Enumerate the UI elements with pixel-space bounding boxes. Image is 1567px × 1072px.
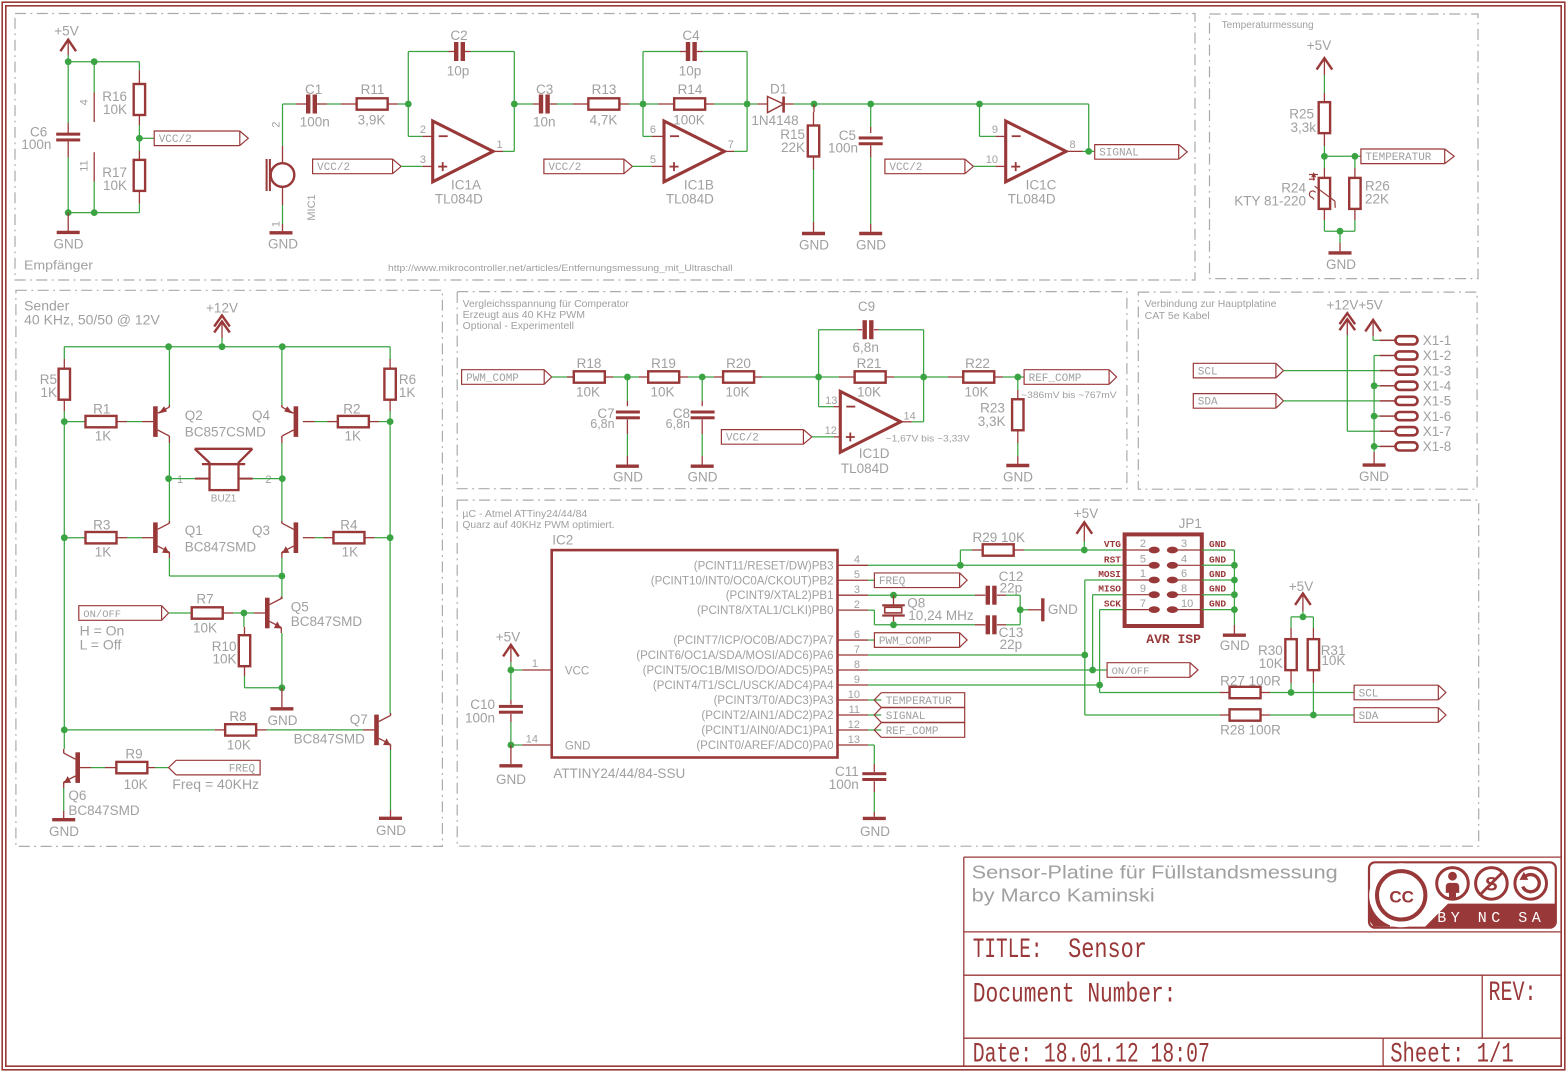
wire IC1A output to feedback node <box>503 150 514 152</box>
junction <box>920 374 927 381</box>
svg-text:R2: R2 <box>343 402 360 417</box>
svg-text:µC - Atmel ATTiny24/44/84: µC - Atmel ATTiny24/44/84 <box>462 509 587 520</box>
wire R11 to node A / junction <box>398 103 408 105</box>
svg-text:R18: R18 <box>577 356 602 371</box>
op-amp IC1B <box>652 135 664 137</box>
wire Q6 emitter to GND <box>63 782 65 788</box>
wire right rail to Q7 collector <box>389 538 391 713</box>
wire R19 to node F <box>688 376 702 378</box>
wire feedback left vertical IC1B <box>642 52 644 105</box>
wire node to GND <box>1339 231 1341 243</box>
wire C6 to GND rail <box>67 157 69 212</box>
svg-text:GND: GND <box>1209 569 1226 580</box>
resistor R28 <box>1220 714 1230 716</box>
connector pad X1-6 <box>1380 415 1396 417</box>
svg-text:12: 12 <box>848 719 860 731</box>
svg-text:~386mV bis ~767mV: ~386mV bis ~767mV <box>1021 390 1117 401</box>
svg-text:Quarz auf 40KHz PWM optimiert.: Quarz auf 40KHz PWM optimiert. <box>462 520 614 531</box>
junction <box>1371 443 1378 450</box>
wire R7 to Q5 base node <box>233 612 244 614</box>
junction <box>65 58 72 65</box>
svg-text:SIGNAL: SIGNAL <box>1099 148 1139 160</box>
wire D1 to node D <box>794 103 814 105</box>
junction <box>61 727 68 734</box>
svg-text:SIGNAL: SIGNAL <box>886 711 926 723</box>
wire VCC/2 to IC1B pin5 <box>632 165 651 167</box>
resistor R25 <box>1323 93 1325 103</box>
svg-text:2: 2 <box>1140 538 1146 550</box>
svg-text:C9: C9 <box>858 299 875 314</box>
svg-text:~1,67V bis ~3,33V: ~1,67V bis ~3,33V <box>886 433 971 444</box>
svg-text:7: 7 <box>854 644 860 656</box>
svg-text:10K: 10K <box>193 620 217 635</box>
wire Q1 emitter down <box>168 552 170 558</box>
wire R27 to SCL node <box>1270 692 1291 694</box>
svg-text:ON/OFF: ON/OFF <box>83 609 121 621</box>
svg-text:TL084D: TL084D <box>1008 192 1056 207</box>
svg-text:8: 8 <box>854 659 860 671</box>
resistor R15 <box>808 126 819 157</box>
junction <box>976 101 983 108</box>
label SCL (uC) <box>1354 685 1438 700</box>
svg-text:100K: 100K <box>673 112 705 127</box>
IC2 pin 10 (PCINT3/T0/ADC3)PA3 <box>838 699 869 701</box>
svg-text:Q1: Q1 <box>185 523 203 538</box>
svg-text:GND: GND <box>1209 599 1226 610</box>
IC2 pin 2 (PCINT8/XTAL1/CLKI)PB0 <box>838 609 869 611</box>
resistor R17 <box>138 151 140 160</box>
svg-text:GND: GND <box>1326 257 1356 272</box>
svg-text:Verbindung zur Hauptplatine: Verbindung zur Hauptplatine <box>1145 299 1277 310</box>
svg-text:ATTINY24/44/84-SSU: ATTINY24/44/84-SSU <box>553 766 685 781</box>
svg-text:BUZ1: BUZ1 <box>211 493 237 504</box>
JP1 row MISO pins 9/8 <box>1125 594 1150 596</box>
junction <box>511 101 518 108</box>
junction <box>811 101 818 108</box>
svg-text:1: 1 <box>271 221 283 227</box>
svg-text:FREQ: FREQ <box>879 576 906 588</box>
svg-text:(PCINT1/AIN0/ADC1)PA1: (PCINT1/AIN0/ADC1)PA1 <box>701 725 833 737</box>
svg-text:3,3K: 3,3K <box>978 414 1006 429</box>
svg-text:+5V: +5V <box>1307 38 1331 53</box>
svg-text:TL084D: TL084D <box>666 192 714 207</box>
label SIGNAL <box>1095 145 1179 160</box>
svg-text:SCK: SCK <box>1104 599 1121 610</box>
wire bottom rail (Empfaenger divider) <box>138 204 140 213</box>
svg-text:FREQ: FREQ <box>229 763 256 775</box>
junction <box>1096 682 1103 689</box>
wire SCL node to label <box>1291 692 1354 694</box>
connector pad X1-3 <box>1380 370 1396 372</box>
transistor Q6 <box>75 752 80 783</box>
label VCC/2 (IC1C pin10) <box>885 159 965 174</box>
svg-text:Sender: Sender <box>24 298 69 314</box>
junction <box>165 475 172 482</box>
capacitor C7 <box>626 377 628 401</box>
wire node D to R15 <box>813 104 815 112</box>
label VCC/2 (divider) <box>154 131 240 146</box>
wire C11 to GND <box>873 792 875 812</box>
ground GND (crystal, rotated) <box>1028 609 1041 611</box>
svg-text:7: 7 <box>1140 598 1146 610</box>
svg-text:GND: GND <box>1220 638 1250 653</box>
svg-text:X1-5: X1-5 <box>1423 394 1452 409</box>
svg-text:Sensor: Sensor <box>1068 935 1147 966</box>
svg-text:40 KHz, 50/50 @ 12V: 40 KHz, 50/50 @ 12V <box>24 312 160 327</box>
resistor R1 <box>64 421 85 423</box>
svg-text:IC1D: IC1D <box>859 446 890 461</box>
ground GND (under Q5) <box>281 688 283 707</box>
svg-text:100n: 100n <box>828 141 858 156</box>
wire right rail R6-R4 <box>389 422 391 538</box>
wire Q4 collector to node 2 <box>281 436 283 443</box>
wire R20 to node G <box>762 376 819 378</box>
wire R18 to node E <box>613 376 627 378</box>
junction <box>1085 148 1092 155</box>
wire ON/OFF to R7 <box>169 612 192 614</box>
svg-text:10K: 10K <box>725 385 749 400</box>
IC2 pin 8 (PCINT5/OC1B/MISO/DO/ADC5)PA5 <box>838 669 869 671</box>
junction <box>699 374 706 381</box>
wire C4 to output node IC1B <box>703 51 748 53</box>
logo icon NC <box>1476 868 1508 900</box>
junction <box>1231 577 1238 584</box>
svg-text:10K: 10K <box>1321 653 1345 668</box>
wire SCL branch down to R27 <box>1099 685 1101 693</box>
wire to rotated GND <box>1020 609 1028 611</box>
svg-text:6: 6 <box>854 629 860 641</box>
wire node G to IC1D pin13 <box>818 377 820 407</box>
svg-text:JP1: JP1 <box>1179 516 1202 531</box>
capacitor C2 <box>408 51 448 53</box>
svg-text:10p: 10p <box>679 64 702 79</box>
svg-text:8: 8 <box>1181 583 1187 595</box>
svg-text:1K: 1K <box>342 545 359 560</box>
junction <box>279 475 286 482</box>
ground GND (JP1) <box>1233 625 1235 634</box>
svg-text:GND: GND <box>496 772 526 787</box>
IC2 pin 4 (PCINT11/RESET/DW)PB3 <box>838 564 869 566</box>
ground GND (Temperatur) <box>1339 243 1341 251</box>
svg-text:3,3k: 3,3k <box>1290 120 1316 135</box>
svg-text:MISO: MISO <box>1098 584 1121 595</box>
wire Q7 emitter to GND <box>390 745 392 751</box>
ground GND (under C6) <box>67 213 69 231</box>
resistor R18 <box>567 376 574 378</box>
ground GND (Verbindung) <box>1373 452 1375 464</box>
label ON/OFF (IC2) <box>1093 669 1108 671</box>
capacitor C4 <box>643 51 680 53</box>
wire left rail to R8 node <box>63 538 65 730</box>
wire MIC1 to signal row <box>282 104 284 146</box>
capacitor C6 <box>67 62 69 123</box>
svg-text:+5V: +5V <box>1074 506 1098 521</box>
wire +5V rail <box>68 61 139 63</box>
svg-text:C4: C4 <box>682 28 700 43</box>
wire pin2 elbow to crystal bottom <box>868 609 874 611</box>
svg-text:1: 1 <box>177 474 183 486</box>
svg-text:REV:: REV: <box>1489 978 1537 1009</box>
svg-text:10K: 10K <box>103 102 127 117</box>
capacitor C12 <box>975 594 985 596</box>
label FREQ (Sender) <box>176 760 260 775</box>
wire node to R26 <box>1354 156 1356 168</box>
junction <box>1310 712 1317 719</box>
svg-text:BC847SMD: BC847SMD <box>185 540 257 555</box>
junction <box>279 573 286 580</box>
svg-text:1: 1 <box>497 139 503 151</box>
svg-text:VCC/2: VCC/2 <box>889 162 922 174</box>
op-amp IC1D <box>834 406 841 408</box>
svg-text:Document Number:: Document Number: <box>973 979 1177 1010</box>
svg-text:10K: 10K <box>212 652 236 667</box>
svg-text:KTY 81-220: KTY 81-220 <box>1234 194 1306 209</box>
wire bottom node (Temperatur) <box>1324 230 1355 232</box>
svg-text:GND: GND <box>565 740 591 752</box>
svg-text:Vergleichsspannung für Compera: Vergleichsspannung für Comperator <box>463 299 630 310</box>
svg-text:10: 10 <box>1181 598 1193 610</box>
svg-text:Q5: Q5 <box>291 600 309 615</box>
wire C10 to GND node <box>510 722 512 745</box>
junction <box>1371 413 1378 420</box>
wire node to C3 <box>514 103 533 105</box>
junction <box>387 534 394 541</box>
transistor Q2 <box>153 406 158 437</box>
connector pad X1-5 <box>1380 400 1396 402</box>
svg-text:+5V: +5V <box>1289 579 1313 594</box>
svg-text:10K: 10K <box>857 385 881 400</box>
svg-text:100n: 100n <box>465 711 495 726</box>
ground GND (under MIC1) <box>282 224 284 231</box>
wire pin2 IC1A <box>408 135 422 137</box>
wire Q4 base to R2 <box>315 421 328 423</box>
svg-text:(PCINT7/ICP/OC0B/ADC7)PA7: (PCINT7/ICP/OC0B/ADC7)PA7 <box>673 635 833 647</box>
svg-text:6,8n: 6,8n <box>590 417 614 431</box>
svg-text:22p: 22p <box>1000 637 1023 652</box>
wire R26 to bottom node <box>1354 220 1356 231</box>
svg-text:TEMPERATUR: TEMPERATUR <box>886 696 952 708</box>
wire R1 to Q2 base <box>127 421 142 423</box>
svg-text:2: 2 <box>271 121 283 127</box>
wire crystal node to C12 <box>894 594 976 596</box>
wire left rail node R3 <box>63 422 65 538</box>
resistor R10 <box>243 613 245 627</box>
svg-text:+12V+5V: +12V+5V <box>1327 298 1383 313</box>
wire VCC/2 to IC1D pin12 <box>812 436 834 438</box>
wire RESET pin4 to JP1 RST <box>868 564 1124 566</box>
junction <box>1288 689 1295 696</box>
svg-text:GND: GND <box>268 237 298 252</box>
svg-text:4: 4 <box>79 99 91 105</box>
label SDA (uC) <box>1354 708 1438 723</box>
svg-text:14: 14 <box>904 411 916 423</box>
svg-text:3: 3 <box>854 584 860 596</box>
svg-text:IC1A: IC1A <box>451 178 481 193</box>
svg-text:TITLE:: TITLE: <box>973 935 1043 966</box>
wire C7 to GND <box>626 434 628 456</box>
svg-text:(PCINT10/INT0/OC0A/CKOUT)PB2: (PCINT10/INT0/OC0A/CKOUT)PB2 <box>651 575 834 587</box>
svg-text:VTG: VTG <box>1104 539 1121 550</box>
IC2 pin 14 GND <box>511 744 522 746</box>
svg-text:R21: R21 <box>857 356 882 371</box>
svg-text:GND: GND <box>860 824 890 839</box>
resistor R16 <box>138 70 140 84</box>
svg-text:D1: D1 <box>770 82 787 97</box>
wire TEMPERATUR node row <box>1324 155 1361 157</box>
svg-text:R11: R11 <box>361 82 385 97</box>
svg-text:(PCINT8/XTAL1/CLKI)PB0: (PCINT8/XTAL1/CLKI)PB0 <box>697 605 834 617</box>
svg-text:(PCINT3/T0/ADC3)PA3: (PCINT3/T0/ADC3)PA3 <box>714 695 834 707</box>
ground GND (under C10) <box>510 745 512 764</box>
wire Q2 collector to node 1 <box>168 443 170 479</box>
section box Verbindung <box>1138 292 1477 489</box>
IC2 pin 9 (PCINT4/T1/SCL/USCK/ADC4)PA4 <box>838 684 869 686</box>
svg-text:SCL: SCL <box>1198 366 1218 378</box>
wire R9 to FREQ label <box>155 767 169 769</box>
svg-text:R22: R22 <box>965 356 990 371</box>
svg-text:Q3: Q3 <box>252 523 270 538</box>
wire crystal bottom to C13 <box>894 624 976 626</box>
wire IC1D output to node H <box>912 421 924 423</box>
svg-text:X1-2: X1-2 <box>1423 348 1452 363</box>
resistor R13 <box>573 103 588 105</box>
logo icon SA <box>1515 868 1547 900</box>
section box Sender <box>16 290 443 846</box>
svg-text:6,8n: 6,8n <box>666 417 690 431</box>
supply +5V (Verbindung) <box>1365 320 1381 332</box>
svg-text:BC847SMD: BC847SMD <box>294 732 366 747</box>
svg-text:SCL: SCL <box>1359 688 1379 700</box>
svg-text:(PCINT4/T1/SCL/USCK/ADC4)PA4: (PCINT4/T1/SCL/USCK/ADC4)PA4 <box>653 680 834 692</box>
svg-text:VCC: VCC <box>565 665 589 677</box>
wire pin9 PA4 to SCK/SCL node <box>868 684 1099 686</box>
svg-text:(PCINT5/OC1B/MISO/DO/ADC5)PA5: (PCINT5/OC1B/MISO/DO/ADC5)PA5 <box>643 665 834 677</box>
junction <box>91 209 98 216</box>
svg-text:Freq = 40KHz: Freq = 40KHz <box>172 776 259 792</box>
wire R4 to right rail node <box>375 537 391 539</box>
section box Empfaenger <box>15 14 1195 281</box>
svg-text:X1-3: X1-3 <box>1423 363 1452 378</box>
wire C1 to R11 <box>327 103 341 105</box>
svg-text:VCC/2: VCC/2 <box>548 162 581 174</box>
wire R8 to Q7 base <box>267 729 364 731</box>
svg-text:2: 2 <box>265 474 271 486</box>
svg-text:5: 5 <box>854 569 860 581</box>
svg-text:6: 6 <box>1181 568 1187 580</box>
label REF_COMP <box>1018 376 1024 378</box>
wire C3 to R13 <box>557 103 573 105</box>
svg-text:MOSI: MOSI <box>1098 569 1121 580</box>
junction <box>1231 606 1238 613</box>
wire VCC/2 to IC1C pin10 <box>973 165 995 167</box>
svg-text:BY NC SA: BY NC SA <box>1437 910 1545 927</box>
svg-text:C2: C2 <box>450 28 467 43</box>
wire SCL to X1-3 <box>1284 370 1380 372</box>
svg-text:TEMPERATUR: TEMPERATUR <box>1365 152 1431 164</box>
svg-text:X1-4: X1-4 <box>1423 379 1452 394</box>
svg-text:CAT 5e Kabel: CAT 5e Kabel <box>1145 311 1210 322</box>
wire R5 to R1 node <box>63 411 65 422</box>
wire pin3 to crystal node <box>868 594 893 596</box>
wire R28 to SDA node <box>1270 714 1313 716</box>
IC2 pin 6 (PCINT7/ICP/OC0B/ADC7)PA7 <box>838 639 869 641</box>
svg-text:ON/OFF: ON/OFF <box>1112 666 1150 678</box>
svg-text:R1: R1 <box>93 402 110 417</box>
svg-text:SDA: SDA <box>1359 711 1379 723</box>
svg-text:9: 9 <box>854 674 860 686</box>
wire MOSI vertical <box>1084 580 1086 655</box>
svg-text:X1-7: X1-7 <box>1423 424 1452 439</box>
ground GND (under C7) <box>626 456 628 465</box>
svg-text:14: 14 <box>526 733 538 745</box>
svg-text:GND: GND <box>1003 470 1033 485</box>
svg-text:Q2: Q2 <box>185 408 203 423</box>
wire +12V stem <box>221 338 223 347</box>
capacitor C10 <box>510 670 512 700</box>
svg-text:10p: 10p <box>447 64 470 79</box>
svg-text:R4: R4 <box>340 518 358 533</box>
svg-text:+5V: +5V <box>496 630 520 645</box>
svg-text:GND: GND <box>1209 539 1226 550</box>
svg-text:10K: 10K <box>227 738 251 753</box>
svg-text:100n: 100n <box>300 115 330 130</box>
junction <box>1017 606 1024 613</box>
junction <box>1231 562 1238 569</box>
wire MISO vertical <box>1092 595 1094 670</box>
svg-text:3: 3 <box>1181 538 1187 550</box>
resistor R31 <box>1312 628 1314 639</box>
ground GND (under Q6) <box>63 811 65 818</box>
wire R30 to SCL node <box>1290 683 1292 693</box>
svg-text:2: 2 <box>420 124 426 136</box>
wire C2 to output node <box>471 51 515 53</box>
svg-text:AVR ISP: AVR ISP <box>1146 632 1201 647</box>
label REF_COMP (IC2 pin12) <box>868 729 881 731</box>
svg-text:BC857CSMD: BC857CSMD <box>185 424 266 439</box>
svg-text:L = Off: L = Off <box>80 637 122 653</box>
wire R23 to GND <box>1017 443 1019 456</box>
wire Q2 emitter to rail <box>168 436 170 443</box>
connector pad X1-8 <box>1380 445 1396 447</box>
wire R29 to +5V node (VTG row) <box>1024 549 1084 551</box>
svg-text:1: 1 <box>532 658 538 670</box>
svg-text:R13: R13 <box>592 82 617 97</box>
svg-text:MIC1: MIC1 <box>306 194 318 220</box>
svg-text:5: 5 <box>1140 554 1146 566</box>
junction <box>1300 614 1307 621</box>
JP1 row MOSI pins 1/6 <box>1125 579 1150 581</box>
junction <box>61 534 68 541</box>
JP1 row SCK pins 7/10 <box>1125 609 1150 611</box>
resistor R6 <box>389 347 391 359</box>
junction <box>91 58 98 65</box>
section box Vergleichsspannung <box>457 292 1127 489</box>
junction <box>744 101 751 108</box>
svg-text:TL084D: TL084D <box>435 192 483 207</box>
svg-text:1K: 1K <box>344 429 361 444</box>
logo icon BY <box>1437 868 1469 900</box>
svg-text:10K: 10K <box>964 385 988 400</box>
wire node to IC1C pin9 <box>979 104 981 136</box>
wire R25 to TEMPERATUR node <box>1323 146 1325 156</box>
svg-text:Sheet: 1/1: Sheet: 1/1 <box>1390 1040 1514 1071</box>
wire JP1 GND bus <box>1202 549 1235 551</box>
wire Q6 base to R9 <box>80 767 91 769</box>
svg-text:5: 5 <box>650 154 656 166</box>
junction <box>1089 667 1096 674</box>
svg-text:3,9K: 3,9K <box>358 112 386 127</box>
svg-text:22K: 22K <box>781 140 805 155</box>
